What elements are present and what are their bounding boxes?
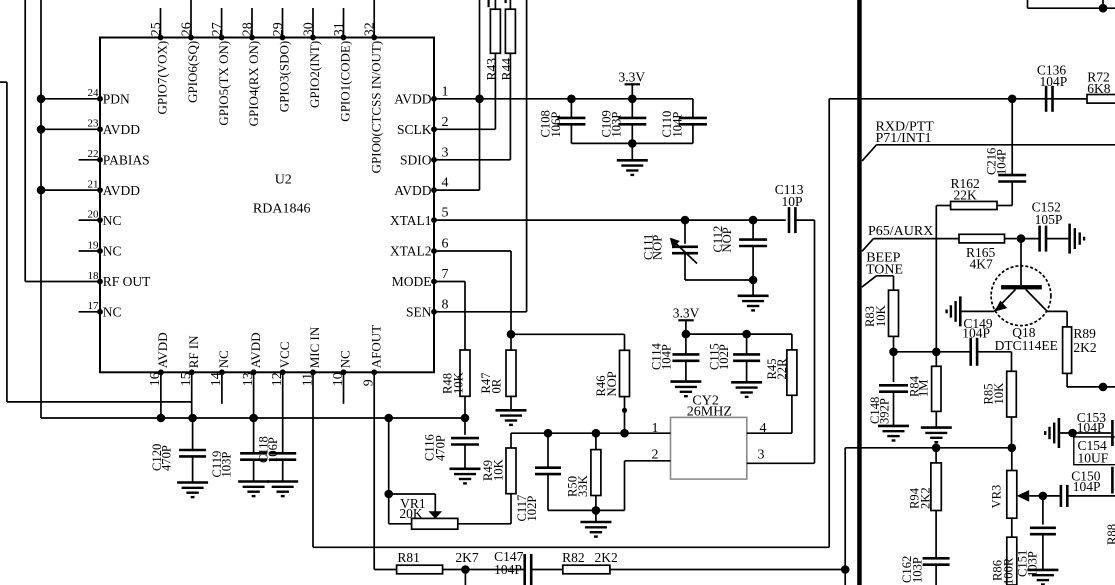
wire MIC IN horizontal: [313, 546, 829, 548]
crystal pin4 wire: [747, 395, 792, 436]
svg-text:10K: 10K: [491, 459, 505, 481]
power 3.3V post C109: [619, 69, 646, 103]
svg-text:106P: 106P: [266, 437, 280, 463]
capacitor C149 104P: [962, 316, 1011, 366]
svg-text:SEN: SEN: [406, 305, 432, 320]
capacitor C116 470P: [423, 418, 480, 468]
wire pin11 MIC IN vertical: [312, 372, 314, 547]
U2 right pin 6 XTAL2 label: [390, 237, 449, 259]
svg-text:1: 1: [652, 421, 659, 436]
svg-text:GPIO5(TX ON): GPIO5(TX ON): [216, 41, 231, 126]
U2 left pin 19 NC label: [88, 239, 122, 258]
svg-text:103P: 103P: [1025, 551, 1039, 577]
wire R82 to bus riser: [610, 565, 850, 574]
capacitor C147 104P: [494, 549, 531, 585]
wire left-edge RF IN feed: [0, 82, 7, 402]
resistor R81 2K7: [374, 550, 479, 574]
U2 left pin 20 NC label: [88, 209, 122, 228]
wire pin5 XTAL1: [434, 219, 786, 221]
node XTAL2/R47: [507, 330, 516, 339]
svg-text:32: 32: [363, 22, 378, 36]
stub pin22 PABIAS: [79, 159, 100, 161]
wire MIC feed to right: [829, 98, 1115, 100]
U2 right pin 8 SEN label: [406, 297, 449, 319]
U2 left pin 22 PABIAS label: [88, 148, 150, 167]
node C120 junction: [188, 414, 197, 423]
svg-text:AVDD: AVDD: [103, 122, 141, 137]
svg-text:18: 18: [88, 270, 100, 282]
svg-text:PDN: PDN: [103, 92, 130, 107]
svg-text:21: 21: [88, 179, 99, 191]
transistor Q18 DTC114EE: [991, 239, 1058, 353]
resistor R72 6K8: [1053, 70, 1115, 104]
crystal pin1 wire: [620, 421, 670, 437]
capacitor C112 NOP: [711, 216, 767, 280]
capacitor C154 10UF box: [1074, 437, 1115, 466]
wire PDN/AVDD vertical rail x=41: [40, 0, 42, 418]
svg-text:AVDD: AVDD: [248, 332, 263, 368]
svg-text:R89: R89: [1073, 326, 1096, 341]
svg-text:NC: NC: [338, 350, 353, 368]
ground below C120: [177, 483, 208, 498]
wire MIC IN riser x=829: [828, 99, 830, 548]
svg-text:U2: U2: [275, 172, 292, 187]
ground below R84: [921, 428, 952, 443]
svg-text:GPIO3(SDO): GPIO3(SDO): [277, 41, 292, 113]
svg-text:DTC114EE: DTC114EE: [995, 338, 1058, 353]
U2 bottom pin 10 NC label: [331, 350, 353, 386]
svg-text:104P: 104P: [1073, 479, 1101, 494]
capacitor plate at right edge: [1111, 467, 1114, 494]
U2 right pin 4 AVDD label: [394, 176, 448, 198]
wire R47 to R46 rail: [511, 333, 625, 335]
wire pin18 RF OUT vertical from top: [24, 0, 26, 282]
resistor R84 1M: [907, 352, 941, 427]
wire C113 to crystal pin3: [795, 220, 814, 463]
ground below C114: [670, 382, 701, 397]
svg-text:AVDD: AVDD: [394, 183, 432, 198]
svg-text:NOP: NOP: [605, 371, 619, 396]
svg-text:104P: 104P: [494, 562, 522, 577]
wire top-right corner: [1028, 0, 1115, 13]
U2 top pin 26 GPIO6(SQ): [180, 0, 201, 103]
svg-text:26MHZ: 26MHZ: [687, 405, 732, 420]
svg-text:XTAL2: XTAL2: [390, 244, 432, 259]
U2 right pin 5 XTAL1 label: [390, 206, 449, 228]
capacitor C113 10P: [775, 182, 804, 233]
svg-text:100R: 100R: [1001, 557, 1015, 585]
U2 right pin 2 SCLK label: [397, 115, 449, 137]
svg-text:SCLK: SCLK: [397, 122, 432, 137]
wire pin18 RF OUT: [25, 281, 100, 283]
svg-text:103P: 103P: [220, 452, 234, 478]
wire C108-C110 ground rail: [571, 139, 693, 159]
U2 left pin 21 AVDD label: [88, 179, 141, 198]
svg-text:SDIO: SDIO: [400, 153, 432, 168]
svg-text:4: 4: [760, 421, 767, 436]
svg-text:10K: 10K: [452, 372, 466, 394]
ground below C115: [731, 382, 762, 397]
ground below C151: [1027, 570, 1058, 585]
capacitor C118 106P on VCC pin12: [257, 372, 297, 480]
svg-text:29: 29: [271, 22, 286, 36]
svg-text:AVDD: AVDD: [103, 183, 141, 198]
svg-text:XTAL1: XTAL1: [390, 213, 432, 228]
wire lower rail y=447.8: [845, 444, 1016, 453]
capacitor C148 392P: [868, 352, 908, 425]
svg-text:2K2: 2K2: [918, 487, 932, 509]
svg-text:33K: 33K: [576, 475, 590, 497]
svg-text:1: 1: [442, 84, 449, 99]
wire pin15 RF IN vertical: [191, 372, 193, 418]
ground below C109 rail: [617, 160, 648, 175]
svg-text:17: 17: [88, 300, 100, 312]
resistor R49 10K: [481, 433, 516, 494]
wire 3.3V rail to R45: [682, 330, 792, 339]
wire pin2 SCLK: [434, 128, 495, 130]
U2 right pin 7 MODE label: [392, 267, 449, 289]
U2 left pin 23 AVDD label: [88, 118, 141, 137]
wire rail to VR1: [384, 414, 393, 499]
svg-text:R88: R88: [1105, 524, 1115, 545]
svg-text:3.3V: 3.3V: [619, 69, 646, 84]
resistor R82 2K2: [531, 550, 618, 574]
svg-text:104P: 104P: [1077, 420, 1105, 435]
svg-text:4: 4: [442, 176, 449, 191]
capacitor C150 104P: [1043, 468, 1115, 507]
U2 bottom pin 12 VCC label: [270, 342, 292, 387]
U2 bottom pin 14 NC label: [209, 350, 231, 386]
svg-text:25: 25: [149, 22, 164, 36]
svg-text:NOP: NOP: [720, 227, 734, 252]
capacitor C153 104P plate: [1077, 410, 1113, 446]
U2 bottom pin 11 MIC IN label: [300, 326, 322, 386]
svg-text:22R: 22R: [775, 358, 789, 380]
svg-text:104P: 104P: [962, 325, 990, 340]
wire R162 to node: [936, 206, 950, 352]
ground below R50/C117: [580, 522, 611, 537]
capacitor C120 470P: [150, 418, 206, 482]
svg-text:22: 22: [88, 148, 99, 160]
node Q18 base: [1017, 234, 1026, 243]
resistor R43: [484, 0, 500, 129]
capacitor C111 NOP variable: [642, 216, 698, 280]
svg-text:2K2: 2K2: [595, 550, 618, 565]
capacitor C108 106P: [539, 95, 586, 144]
svg-text:AVDD: AVDD: [394, 92, 432, 107]
svg-text:AVDD: AVDD: [155, 332, 170, 368]
U2 bottom pin 15 RF IN label: [179, 335, 201, 386]
potentiometer VR1 20K: [389, 494, 511, 529]
svg-text:10P: 10P: [782, 194, 803, 209]
capacitor C114 104P: [649, 334, 699, 381]
svg-text:103P: 103P: [911, 557, 925, 583]
node R81 output: [443, 565, 525, 585]
svg-text:23: 23: [88, 118, 100, 130]
svg-text:NC: NC: [216, 350, 231, 368]
svg-text:R44: R44: [499, 58, 514, 81]
capacitor C109 103P: [599, 99, 646, 144]
svg-text:GPIO0(CTCSS IN/OUT): GPIO0(CTCSS IN/OUT): [368, 41, 383, 174]
wire pin9 AFOUT vertical: [373, 372, 375, 569]
resistor R83 10K: [863, 276, 898, 352]
wire pin7 MODE: [434, 282, 465, 351]
svg-text:392P: 392P: [877, 398, 891, 424]
svg-text:GPIO7(VOX): GPIO7(VOX): [155, 41, 170, 115]
svg-text:R43: R43: [484, 58, 499, 81]
U2 bottom pin 13 AVDD label: [241, 332, 263, 386]
wire XTAL node rail: [511, 432, 625, 434]
resistor R48 10K: [441, 350, 471, 418]
resistor R85 10K: [981, 352, 1016, 448]
svg-text:20K: 20K: [399, 506, 423, 521]
wire C153 node: [1059, 429, 1111, 438]
resistor R50 33K: [566, 429, 601, 510]
svg-text:NC: NC: [103, 305, 122, 320]
svg-text:27: 27: [210, 22, 225, 36]
svg-text:470P: 470P: [159, 445, 173, 471]
svg-text:106P: 106P: [549, 112, 563, 138]
U2 left pin 17 NC label: [88, 300, 122, 319]
capacitor C136 104P: [1037, 62, 1067, 112]
svg-text:10UF: 10UF: [1078, 451, 1109, 466]
U2 top pin 30 GPIO2(INT): [302, 8, 323, 108]
svg-text:104P: 104P: [995, 149, 1009, 175]
wire pin6 XTAL2: [434, 251, 511, 334]
wire C111-C112 bottom: [685, 276, 757, 295]
crystal pin2 wire: [596, 448, 671, 511]
svg-text:NOP: NOP: [651, 235, 665, 260]
svg-text:104P: 104P: [670, 112, 684, 138]
U2 top pin 25 GPIO7(VOX): [149, 8, 170, 114]
net flag P65/AURX: [862, 224, 959, 252]
wire pin23 AVDD: [37, 125, 100, 134]
svg-text:P65/AURX: P65/AURX: [868, 224, 933, 239]
capacitor C110 104P: [660, 99, 707, 144]
svg-text:PABIAS: PABIAS: [103, 153, 150, 168]
wire audio node: [889, 348, 971, 357]
crystal pin3 wire: [747, 448, 815, 464]
potentiometer VR3: [990, 448, 1043, 537]
wire pin21 AVDD: [37, 186, 100, 195]
U2 bottom pin 16 AVDD label: [148, 332, 170, 386]
svg-text:7: 7: [442, 267, 449, 282]
wire pin8 SEN: [434, 0, 527, 312]
U2 left pin 18 RF OUT label: [88, 270, 152, 289]
svg-text:104P: 104P: [660, 344, 674, 370]
U2 top pin 31 GPIO1(CODE): [332, 8, 353, 122]
svg-text:P71/INT1: P71/INT1: [876, 131, 932, 146]
resistor R162 22K: [951, 176, 1013, 210]
AC ground right of C152: [1070, 224, 1085, 254]
U2 top pin 29 GPIO3(SDO): [271, 8, 292, 112]
wire pin24 PDN: [37, 95, 100, 104]
wire pin1 AVDD rail: [434, 98, 693, 100]
svg-text:MIC IN: MIC IN: [307, 326, 322, 368]
svg-text:103P: 103P: [610, 112, 624, 138]
resistor R88 label fragment: [1105, 524, 1115, 545]
svg-text:20: 20: [88, 209, 100, 221]
wire R89 out: [1067, 383, 1115, 392]
svg-text:2K2: 2K2: [1073, 340, 1096, 355]
resistor R94 2K2: [908, 448, 942, 559]
svg-text:GPIO2(INT): GPIO2(INT): [307, 41, 322, 108]
U2 top pin 32 GPIO0(CTCSS IN/OUT): [363, 0, 384, 173]
capacitor C151 103P: [1016, 496, 1056, 577]
svg-text:GPIO4(RX ON): GPIO4(RX ON): [246, 41, 261, 127]
svg-text:NC: NC: [103, 213, 122, 228]
resistor R47 0R: [479, 334, 516, 409]
svg-text:19: 19: [88, 239, 100, 251]
wire RF IN horizontal: [7, 401, 192, 403]
node crystal ground: [592, 506, 601, 521]
svg-text:4K7: 4K7: [970, 256, 993, 271]
svg-text:2: 2: [442, 115, 449, 130]
U2 top pin 28 GPIO4(RX ON): [241, 8, 262, 126]
power 3.3V post C114: [673, 306, 700, 335]
svg-text:2: 2: [652, 448, 659, 463]
crystal CY2 26MHZ box: [671, 394, 747, 480]
stub pin20 NC: [79, 219, 100, 221]
svg-text:6K8: 6K8: [1087, 81, 1110, 96]
svg-text:102P: 102P: [525, 496, 539, 522]
resistor R45 22R: [765, 334, 797, 395]
ground below C118: [267, 482, 298, 497]
U2 top pin 27 GPIO5(TX ON): [210, 8, 231, 126]
AC ground at Q18 emitter: [947, 296, 995, 326]
node VR3 wiper: [1039, 492, 1048, 501]
net flag BEEP TONE: [862, 251, 903, 288]
svg-text:105P: 105P: [1035, 212, 1063, 227]
wire pin4 AVDD: [434, 0, 484, 190]
resistor R89 2K2: [1063, 326, 1097, 387]
svg-text:VR3: VR3: [990, 485, 1004, 509]
ground below C119: [238, 482, 269, 497]
svg-text:22K: 22K: [954, 187, 978, 202]
U2 right pin 3 SDIO label: [400, 145, 449, 167]
svg-text:NC: NC: [103, 244, 122, 259]
node R48/C116: [461, 414, 470, 423]
svg-text:5: 5: [442, 206, 449, 221]
svg-text:10K: 10K: [874, 305, 888, 327]
svg-text:3: 3: [442, 145, 449, 160]
AC ground left of C153: [1045, 418, 1059, 448]
R43 value fragment: [488, 0, 490, 7]
bus thick vertical line: [857, 0, 862, 585]
U2 right pin 1 AVDD label: [394, 84, 448, 106]
capacitor C216 104P: [985, 99, 1027, 206]
svg-text:MODE: MODE: [392, 274, 432, 289]
svg-text:AFOUT: AFOUT: [368, 325, 383, 368]
wire pin3 SDIO: [434, 159, 510, 161]
U2 left pin 24 PDN label: [88, 87, 131, 106]
ground below C148: [878, 426, 909, 441]
wire pin13 AVDD vertical: [249, 372, 258, 422]
wire Q18 collector: [1047, 311, 1067, 327]
IC U2 RDA1846 body: [100, 38, 434, 373]
svg-text:31: 31: [332, 22, 347, 36]
ground below C116: [450, 469, 481, 484]
svg-text:104P: 104P: [1040, 74, 1068, 89]
capacitor C115 102P: [707, 334, 760, 381]
svg-text:10K: 10K: [992, 383, 1006, 405]
svg-text:3.3V: 3.3V: [673, 306, 700, 321]
stub pin10 NC: [343, 372, 345, 404]
wire VR1 to R49: [510, 494, 512, 524]
svg-text:30: 30: [302, 22, 317, 36]
svg-text:VCC: VCC: [277, 342, 292, 369]
svg-text:102P: 102P: [717, 344, 731, 370]
capacitor C152 105P: [1021, 200, 1068, 252]
wire riser x=845: [844, 448, 846, 585]
svg-text:6: 6: [442, 237, 449, 252]
svg-text:24: 24: [88, 87, 100, 99]
svg-text:2K7: 2K7: [455, 550, 478, 565]
stub pin19 NC: [79, 250, 100, 252]
capacitor C162 103P: [900, 556, 950, 585]
svg-text:26: 26: [180, 22, 195, 36]
svg-text:R82: R82: [562, 550, 585, 565]
capacitor C117 102P: [515, 429, 596, 522]
wire AVDD bottom rail y=418: [41, 417, 465, 419]
svg-text:R81: R81: [397, 550, 420, 565]
R44 value fragment: [505, 0, 507, 3]
resistor R44: [499, 0, 515, 160]
capacitor C119 103P: [210, 418, 267, 481]
svg-text:0R: 0R: [490, 378, 504, 393]
svg-text:470P: 470P: [434, 435, 448, 461]
ground below C112: [738, 296, 769, 311]
svg-text:1M: 1M: [916, 380, 930, 398]
wire pin16 AVDD vertical: [157, 372, 166, 422]
stub pin14 NC: [221, 372, 223, 404]
svg-text:RF OUT: RF OUT: [103, 274, 151, 289]
resistor R165 4K7: [959, 234, 1018, 271]
resistor R46 NOP: [594, 334, 630, 433]
resistor R86 100R: [991, 537, 1017, 585]
svg-text:GPIO6(SQ): GPIO6(SQ): [185, 41, 200, 103]
node C136 junction: [1008, 95, 1017, 104]
svg-text:RDA1846: RDA1846: [253, 202, 311, 217]
svg-text:8: 8: [442, 297, 449, 312]
svg-text:28: 28: [241, 22, 256, 36]
svg-text:GPIO1(CODE): GPIO1(CODE): [338, 41, 353, 122]
net flag RXD/PTT P71/INT1: [862, 120, 1115, 162]
svg-text:3: 3: [758, 448, 765, 463]
svg-text:RF IN: RF IN: [186, 335, 201, 368]
ground below R47: [496, 410, 527, 425]
stub pin17 NC: [79, 311, 100, 313]
U2 bottom pin 9 AFOUT label: [362, 325, 384, 386]
svg-text:TONE: TONE: [866, 262, 903, 277]
